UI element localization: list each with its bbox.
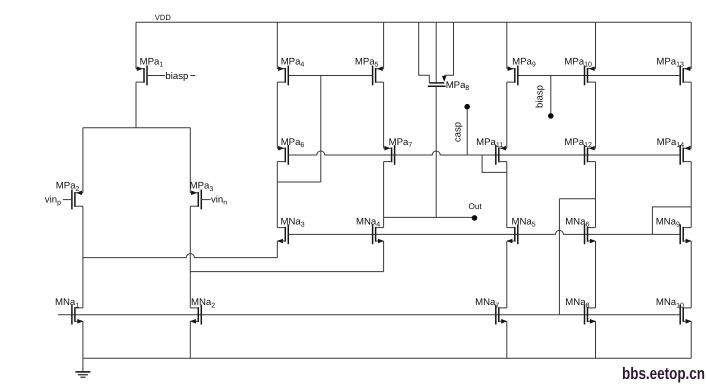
label MPa11 [476,137,503,149]
wire node B horizontal (MPa3 drain to MNa4 source) [190,271,383,273]
transistor MNa2 (mirrored) [190,305,201,325]
node vinp label [45,195,61,207]
label MNa1 [55,297,79,309]
wire MPa9 source from VDD [506,22,508,68]
transistor MPa5 (mirrored) [373,66,384,86]
wire MPa1 gate lead [147,75,165,77]
wire MPa2 drain / MNa1 drain [82,206,84,308]
wire MPa6 drain to MNa3 drain [276,162,278,228]
label MNa7 [475,297,499,309]
wire upper NMOS gate line (MNa3-MNa4-MNa5-MNa6-MNa9) hop over MNa6 link [288,230,680,234]
label MPa5 [355,56,379,68]
label MPa9 [512,56,536,68]
wire MNa9 source to MNa10 drain [690,241,692,308]
label MPa4 [281,56,305,68]
wire node A horizontal (MPa2 drain to MNa3 source), hop over MPa3 drain [83,254,277,258]
label MPa12 [564,137,592,149]
wire MNa8 source to ground [595,321,597,358]
transistor MPa4 [277,66,288,86]
node vinn label [211,195,227,207]
wire casp bias stub [466,107,468,155]
wire MPa1 source from VDD [135,22,137,68]
transistor MPa2 (mirrored) [72,190,83,210]
wire MPa5 drain to MPa7 source [383,82,385,148]
svg-text:Out: Out [469,202,483,211]
wire MPa4 drain to MPa6 source [276,82,278,148]
transistor MPa8 (rotated, MOS-cap to VDD) [428,76,447,86]
wire row1 mirror gate line (MPa9-MPa10-MPa13) [518,75,680,77]
wire MPa8 source lead from VDD [444,22,453,75]
transistor MPa6 [277,145,288,165]
label MNa6 [565,216,589,228]
transistor MPa7 [384,145,395,165]
wire MNa4 source lead [383,241,385,272]
wire tail to MPa3 source [189,128,191,193]
wire MPa11 gate-drain diode link [482,155,507,172]
label MPa8 [446,80,470,92]
wire MNa10 source to ground [690,321,692,358]
wire MNa6 source to MNa8 drain [595,241,597,308]
label MPa13 [656,56,684,68]
transistor MNa7 [496,305,507,325]
wire MPa11 drain to MNa5 drain [506,162,508,228]
label MPa2 [56,181,80,193]
wire MPa14 drain to MNa9 drain [690,162,692,228]
transistor MNa4 [373,224,384,244]
label MPa1 [140,56,164,68]
wire MPa10 source from VDD [595,22,597,68]
watermark bbs.eetop.cn [622,364,705,383]
node casp dot [464,104,470,110]
wire ground stub [82,358,84,372]
wire MNa5 source to MNa7 drain [506,241,508,308]
wire MNa6 drain down-link to lower gate line [558,199,560,315]
svg-text:casp: casp [453,122,464,142]
label MPa3 [190,181,214,193]
wire ground rail [83,357,691,359]
wire MPa9 drain to MPa11 source [506,82,508,148]
transistor MNa5 (mirrored) [506,224,517,244]
wire MPa8 drain lead from VDD [419,22,430,82]
wire Out line [384,216,475,218]
transistor MPa10 (mirrored) [585,66,596,86]
node Out dot [472,215,478,221]
wire MPa3 gate lead [201,199,210,201]
wire tail node crossbar [83,127,190,129]
wire VDD rail [136,21,691,23]
transistor MNa10 [680,305,691,325]
label MNa9 [656,216,680,228]
wire gate-link to MPa6 drain [277,181,321,183]
wire biasp trailing dash [190,75,195,77]
transistor MPa13 (mirrored) [680,66,691,86]
wire lower NMOS gate line (MNa1-MNa2-MNa7-MNa8-MNa10) [58,314,680,316]
node biasp wire label (MPa1) [165,71,188,82]
wire MPa4-MPa5 gate wire [288,75,372,77]
wire MPa1 drain to tail node [135,82,137,128]
label MNa8 [565,297,589,309]
svg-text:bbs.eetop.cn: bbs.eetop.cn [622,364,705,383]
transistor MNa8 [585,305,596,325]
svg-text:VDD: VDD [155,13,172,22]
label MNa2 [191,297,215,309]
transistor MPa14 (mirrored) [680,145,691,165]
node Out label [469,202,483,211]
transistor MPa9 [507,66,518,86]
wire MNa7 source to ground [506,321,508,358]
wire MPa8 gate down to Out line [435,86,437,217]
node casp label [453,122,464,142]
label MNa3 [281,216,305,228]
transistor MPa3 [190,190,201,210]
transistor MNa9 [680,224,691,244]
wire MNa6 drain loop top [559,198,595,200]
wire MPa5 source from VDD [383,22,385,68]
wire MPa4/MPa5 gate down-link [320,76,322,183]
label MNa5 [512,216,536,228]
wire MPa3 drain / MNa2 drain [189,206,191,308]
transistor MNa6 [585,224,596,244]
wire cascode gate line (MPa6-MPa7-MPa11-MPa12-MPa14) with hops [288,151,680,155]
label MPa7 [389,137,413,149]
label MPa6 [281,137,305,149]
wire MNa3 source lead [276,241,278,258]
wire biasp stub [550,76,552,116]
wire MPa12 drain to MNa6 drain [595,162,597,228]
wire MPa7 drain to MNa4 drain (Out column) [383,162,385,228]
label MPa10 [564,56,592,68]
transistor MNa1 [72,305,83,325]
label MNa10 [656,297,684,309]
wire MNa2 source to ground [189,321,191,358]
wire tail to MPa2 source [82,128,84,193]
wire MPa13 drain to MPa14 source [690,82,692,148]
label MNa4 [356,216,380,228]
node biasp label [535,85,546,108]
node biasp dot [548,113,554,119]
wire MPa10 drain to MPa12 source [595,82,597,148]
wire MPa2 gate lead [63,199,72,201]
wire MNa1 source to ground [82,321,84,358]
label MPa14 [657,137,685,149]
transistor MPa11 (mirrored) [496,145,507,165]
transistor MNa3 (mirrored) [277,224,288,244]
wire MPa8 bulk lead from VDD [435,22,437,82]
wire MNa9 gate-drain diode loop [652,207,691,235]
wire MPa4 source from VDD [276,22,278,68]
node VDD label [155,13,172,22]
transistor MPa12 (mirrored) [585,145,596,165]
svg-text:biasp: biasp [535,85,546,108]
svg-text:biasp: biasp [165,71,188,82]
ground symbol [75,372,90,377]
transistor MPa1 [136,66,147,86]
wire MPa13 source from VDD [690,22,692,68]
